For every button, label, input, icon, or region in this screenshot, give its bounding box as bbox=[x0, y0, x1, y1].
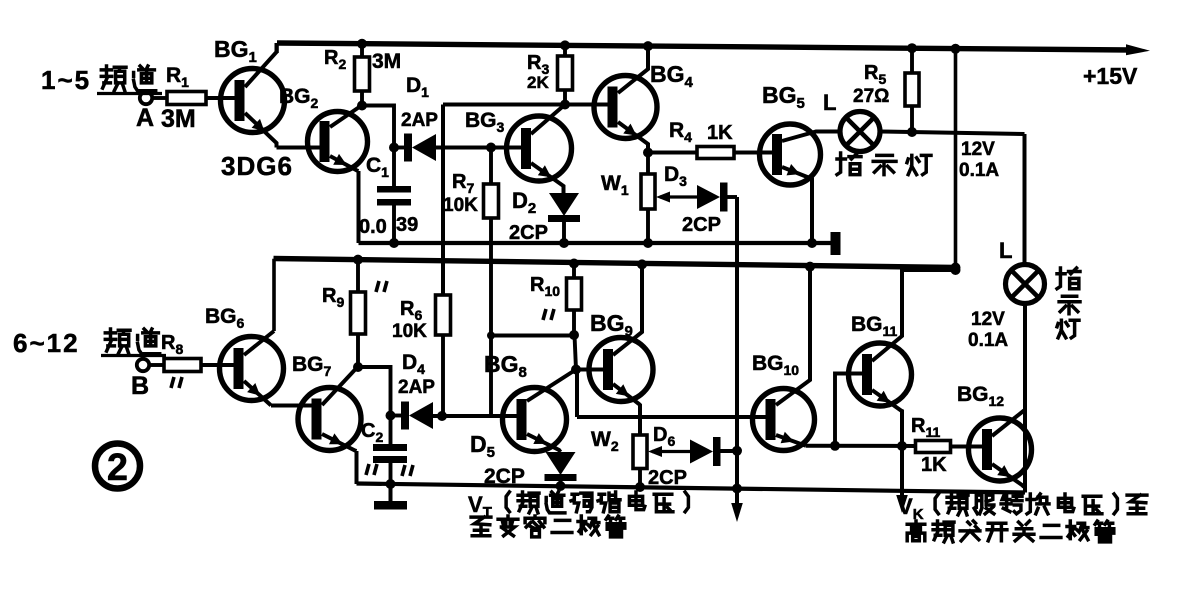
node D6 label bbox=[653, 424, 675, 449]
node junction C1 ground bus bbox=[389, 238, 399, 248]
transistor BG11 bbox=[849, 270, 956, 505]
svg-text:B: B bbox=[131, 372, 149, 400]
node R4 label bbox=[669, 119, 692, 145]
node D5 label bbox=[470, 431, 495, 461]
node D6 type 2CP bbox=[648, 467, 687, 489]
node junction D5 ground bus2 bbox=[556, 481, 566, 491]
svg-text:2AP: 2AP bbox=[401, 110, 438, 131]
transistor BG7 bbox=[298, 368, 361, 452]
transistor BG1 bbox=[221, 43, 285, 148]
node D2 type 2CP bbox=[509, 222, 548, 244]
node D4 label bbox=[402, 351, 425, 377]
node R10 ditto value bbox=[543, 309, 554, 320]
wire D1 to BG3 base bbox=[436, 146, 522, 150]
svg-text:1~5: 1~5 bbox=[41, 65, 91, 95]
svg-text:10K: 10K bbox=[443, 195, 478, 216]
svg-text:2CP: 2CP bbox=[484, 465, 525, 488]
node R5 value 27ohm bbox=[853, 86, 889, 107]
node R9 junction rail2 bbox=[353, 255, 363, 265]
node VT caption line1 bbox=[468, 492, 688, 521]
node terminal A bbox=[140, 92, 152, 104]
svg-text:39: 39 bbox=[396, 214, 418, 236]
node junction D4-C2 bbox=[386, 411, 396, 421]
wire D6 to VT vertical bbox=[718, 449, 738, 453]
wire R4 to BG5 base bbox=[734, 151, 773, 155]
node R3 value 2K bbox=[527, 73, 549, 92]
node junction BG11 emitter R11 bbox=[897, 441, 907, 451]
svg-text:27Ω: 27Ω bbox=[853, 86, 889, 107]
svg-text:2K: 2K bbox=[527, 73, 549, 92]
node C1 value 0.0039 bbox=[359, 214, 418, 238]
svg-text:2CP: 2CP bbox=[682, 214, 721, 236]
wire BG4 emitter to R4 bbox=[648, 151, 697, 155]
node L1 label bbox=[823, 90, 836, 115]
node VK caption line2 bbox=[907, 521, 1114, 542]
node junction D1-C1 bbox=[389, 143, 399, 153]
wire lamp2 riser bbox=[1023, 134, 1027, 266]
node D1 type 2AP bbox=[401, 110, 438, 131]
node VK arrowhead bbox=[896, 495, 908, 513]
svg-text:10K: 10K bbox=[392, 321, 427, 342]
node L2 label bbox=[999, 238, 1012, 263]
svg-text:3M: 3M bbox=[161, 105, 196, 133]
resistor R3 bbox=[558, 45, 573, 104]
wire rail2 left drop to BG6 collector bbox=[272, 259, 276, 331]
wire BG11 base lead bbox=[835, 374, 863, 446]
svg-text:0.1A: 0.1A bbox=[968, 330, 1008, 351]
transistor BG2 bbox=[308, 107, 368, 172]
wire R2 junction to D1 branch bbox=[362, 106, 394, 148]
wire ground bus section1 bbox=[359, 241, 833, 245]
wire BG1 emitter to BG2 base bbox=[277, 146, 323, 150]
diode D3 2CP bbox=[697, 183, 728, 212]
node junction R10 bottom bbox=[569, 330, 579, 340]
resistor R7 bbox=[484, 148, 499, 417]
svg-text:3DG6: 3DG6 bbox=[221, 151, 293, 181]
svg-text:0.0: 0.0 bbox=[359, 216, 387, 238]
wire D5 to ground bus2 bbox=[559, 481, 563, 487]
wire B to R8 bbox=[149, 363, 164, 367]
wire lower rail section2 bbox=[274, 259, 956, 268]
node junction R3-BG3 collector bbox=[560, 100, 570, 110]
node junction D2 ground bus bbox=[559, 238, 569, 248]
node +15V arrowhead bbox=[1126, 44, 1150, 55]
wire R10 junction to R7 vertical bbox=[487, 332, 574, 340]
node BG6 label bbox=[205, 305, 245, 331]
node D3 label bbox=[664, 163, 687, 189]
node BG9 collector junction rail2 bbox=[637, 259, 647, 269]
svg-text:12V: 12V bbox=[971, 309, 1005, 330]
svg-text:1K: 1K bbox=[707, 122, 733, 144]
node rail2 end junction bbox=[951, 263, 961, 273]
node BG7 label bbox=[292, 353, 332, 379]
node BG12 label bbox=[957, 383, 1004, 409]
potentiometer W2 bbox=[633, 435, 647, 487]
node L1 caption zhishideng bbox=[837, 153, 931, 175]
wire junction to D4 bbox=[391, 414, 402, 418]
svg-text:3M: 3M bbox=[372, 50, 401, 73]
wire D2 to ground bus bbox=[562, 222, 566, 243]
wire BG2 emitter drop bbox=[357, 171, 361, 243]
wire R10 junction down to BG9 base node bbox=[575, 335, 577, 370]
node A label bbox=[136, 104, 154, 132]
wire BG10 base horizontal bbox=[577, 415, 767, 419]
node W1 label bbox=[601, 172, 629, 198]
node BG10 label bbox=[752, 352, 799, 378]
resistor R5 bbox=[905, 48, 919, 132]
node R7 value 10K bbox=[443, 195, 478, 216]
transistor BG5 bbox=[760, 124, 841, 243]
node R4 value 1K bbox=[707, 122, 733, 144]
svg-text:6~12: 6~12 bbox=[13, 328, 80, 358]
svg-text:2CP: 2CP bbox=[509, 222, 548, 244]
node D3 type 2CP bbox=[682, 214, 721, 236]
node R2 value 3M bbox=[372, 50, 401, 73]
resistor R1 bbox=[167, 92, 206, 105]
node BG1 type 3DG6 bbox=[221, 151, 293, 181]
node D1 label bbox=[406, 74, 429, 100]
resistor R9 bbox=[351, 260, 366, 367]
node BG2 label bbox=[279, 85, 319, 111]
node R3 label bbox=[527, 52, 549, 77]
node C2 label bbox=[361, 420, 383, 445]
svg-text:+15V: +15V bbox=[1083, 63, 1138, 89]
svg-text:0.1A: 0.1A bbox=[959, 160, 999, 181]
node R11 value 1K bbox=[921, 454, 947, 476]
node junction R2 top rail bbox=[357, 39, 367, 49]
node BG4 label bbox=[650, 61, 694, 91]
node junction R9-BG7 collector bbox=[353, 362, 363, 372]
diode D5 2CP bbox=[545, 452, 577, 481]
node BG11 label bbox=[851, 313, 898, 339]
node R2 label bbox=[324, 47, 346, 72]
node input label 1~5 pindao bbox=[41, 65, 162, 95]
svg-text:A: A bbox=[136, 104, 154, 132]
node junction VT ground bus2 bbox=[732, 484, 742, 494]
node R7 label bbox=[452, 171, 474, 196]
node R6 label bbox=[400, 298, 422, 323]
wire BG6 emitter to BG7 base bbox=[271, 404, 313, 408]
node junction W1 ground bus bbox=[643, 238, 653, 248]
node +15V label bbox=[1083, 63, 1138, 89]
node R8 ditto value bbox=[171, 377, 182, 388]
node R9 label bbox=[322, 285, 344, 310]
resistor R4 bbox=[697, 147, 734, 159]
node B label bbox=[131, 372, 149, 400]
node W1 wiper arrow bbox=[656, 192, 697, 203]
node terminal B bbox=[137, 359, 149, 371]
node VK caption line1 bbox=[898, 494, 1147, 523]
wire D3 to VT vertical bbox=[725, 195, 738, 199]
node junction R7 top bbox=[486, 143, 496, 153]
wire VT vertical bbox=[735, 197, 739, 508]
wire D4 to BG8 base bbox=[433, 414, 518, 418]
node BG4 emitter junction bbox=[643, 148, 653, 158]
node R5 label bbox=[864, 62, 886, 87]
transistor BG9 bbox=[589, 264, 653, 435]
wire R9 junction to D4 branch bbox=[358, 367, 391, 416]
resistor R10 bbox=[567, 264, 582, 336]
node junction R6 bottom bbox=[437, 411, 447, 421]
node W2 label bbox=[591, 428, 619, 454]
wire A to R1 bbox=[152, 96, 167, 100]
transistor BG12 bbox=[969, 411, 1032, 488]
diode D2 2CP bbox=[548, 193, 580, 222]
node BG4 collector junction rail bbox=[643, 41, 653, 51]
wire R1 to BG1 base bbox=[206, 96, 237, 100]
transistor BG4 bbox=[594, 46, 657, 152]
wire lamp feed horizontal bbox=[880, 132, 1025, 135]
transistor BG10 bbox=[753, 267, 815, 451]
node BG10 collector junction rail2 bbox=[805, 262, 815, 272]
node BG9 label bbox=[590, 310, 633, 340]
node R1 value 3M bbox=[161, 105, 196, 133]
node D4 type 2AP bbox=[398, 377, 435, 398]
node junction BG9 base bbox=[571, 365, 581, 375]
wire lamp2 bottom drop bbox=[1023, 303, 1027, 493]
node BG8 label bbox=[484, 351, 527, 381]
node BG5 label bbox=[762, 82, 805, 112]
ground symbol below C2 bbox=[374, 484, 407, 510]
node junction D6-VT vertical bbox=[732, 446, 742, 456]
node BG11 collector junction bbox=[951, 265, 961, 275]
node D5 type 2CP bbox=[484, 465, 525, 488]
svg-text:2: 2 bbox=[107, 447, 128, 489]
node R8 label bbox=[161, 332, 183, 357]
node R1 label bbox=[166, 64, 189, 90]
node input label 6~12 pindao bbox=[13, 328, 166, 358]
wire +15V top rail bbox=[277, 43, 1131, 50]
node R10 label bbox=[530, 274, 560, 299]
wire BG10 emitter to R11 bbox=[806, 444, 916, 448]
node BG5 emitter junction bbox=[807, 238, 817, 248]
transistor BG6 bbox=[220, 331, 284, 406]
node BG1 label bbox=[214, 36, 257, 66]
node R5 junction rail bbox=[907, 43, 917, 53]
node L1 rating 12V 0.1A bbox=[959, 139, 999, 181]
transistor BG8 bbox=[503, 370, 577, 453]
ground chassis bar section1 bbox=[831, 232, 841, 255]
wire BG4 base feed vertical bbox=[441, 105, 445, 296]
lamp L2 indicator bbox=[1006, 265, 1045, 304]
diode D6 2CP bbox=[690, 437, 721, 466]
wire left vertical BG1 collector to rail bbox=[275, 43, 279, 53]
node R5 bottom junction bbox=[907, 127, 917, 137]
node junction BG11 base BG10 emitter bbox=[830, 441, 840, 451]
resistor R6 bbox=[436, 295, 451, 416]
wire +15V drop to rail2 right end bbox=[951, 44, 961, 272]
transistor BG3 bbox=[507, 105, 572, 194]
svg-text:2AP: 2AP bbox=[398, 377, 435, 398]
svg-text:2CP: 2CP bbox=[648, 467, 687, 489]
wire BG7 emitter drop bbox=[355, 451, 359, 484]
wire junction to BG9 base bbox=[576, 368, 604, 372]
lamp L1 indicator bbox=[840, 112, 880, 152]
node D2 label bbox=[512, 188, 536, 217]
node R3 junction top rail bbox=[560, 40, 570, 50]
potentiometer W1 bbox=[641, 153, 655, 244]
diode D1 2AP bbox=[404, 134, 436, 162]
node R9 ditto value bbox=[376, 281, 387, 292]
wire R11 to BG12 base bbox=[951, 445, 984, 449]
node R11 label bbox=[911, 415, 940, 440]
node L2 caption zhishideng vertical bbox=[1057, 268, 1080, 338]
node figure number 2 bbox=[95, 444, 140, 490]
capacitor C2 bbox=[373, 416, 407, 485]
wire R8 to BG6 base bbox=[201, 363, 235, 367]
node BG3 label bbox=[465, 109, 505, 135]
wire junction to D1 bbox=[394, 146, 404, 150]
node VT caption line2 bbox=[471, 516, 625, 537]
wire ground bus section2 bbox=[357, 484, 1026, 493]
node L2 rating 12V 0.1A bbox=[968, 309, 1008, 351]
diode D4 2AP bbox=[401, 402, 433, 430]
svg-text:L: L bbox=[999, 238, 1012, 263]
resistor R8 bbox=[164, 359, 201, 372]
resistor R11 bbox=[916, 441, 951, 453]
svg-text:L: L bbox=[823, 90, 836, 115]
node junction C2 ground bus2 bbox=[386, 479, 396, 489]
node W2 wiper arrow bbox=[648, 446, 690, 457]
node junction W2 ground bus2 bbox=[635, 482, 645, 492]
node C2 ditto values bbox=[366, 464, 413, 476]
node VT arrowhead bbox=[731, 503, 743, 522]
node R6 value 10K bbox=[392, 321, 427, 342]
svg-text:1K: 1K bbox=[921, 454, 947, 476]
node R10 junction rail2 bbox=[569, 259, 579, 269]
node C1 label bbox=[366, 154, 389, 180]
node junction R2-BG2 collector bbox=[357, 101, 367, 111]
wire junction down to BG10 base wire bbox=[575, 370, 579, 418]
svg-text:12V: 12V bbox=[961, 139, 995, 160]
wire BG4 base feed horizontal bbox=[443, 103, 609, 107]
resistor R2 bbox=[355, 44, 370, 106]
capacitor C1 bbox=[377, 148, 411, 244]
